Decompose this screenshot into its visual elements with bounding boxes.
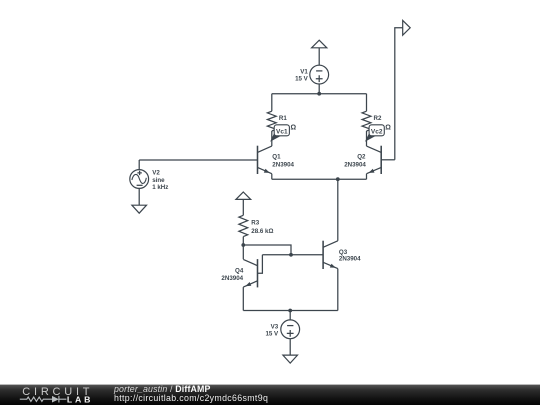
svg-text:V3: V3	[271, 323, 279, 330]
svg-text:2N3904: 2N3904	[339, 256, 361, 263]
svg-text:V2: V2	[152, 169, 160, 176]
svg-text:Q2: Q2	[357, 154, 366, 161]
svg-text:R2: R2	[374, 115, 382, 122]
svg-text:Vc2: Vc2	[371, 129, 383, 136]
svg-text:2N3904: 2N3904	[272, 161, 294, 168]
svg-text:Ω: Ω	[385, 124, 391, 131]
svg-text:Q4: Q4	[235, 268, 244, 275]
svg-text:15 V: 15 V	[295, 75, 309, 82]
svg-text:Ω: Ω	[291, 124, 297, 131]
svg-text:LAB: LAB	[67, 395, 93, 405]
svg-text:R1: R1	[279, 115, 287, 122]
svg-text:28.6 kΩ: 28.6 kΩ	[251, 228, 273, 235]
svg-text:2N3904: 2N3904	[344, 161, 366, 168]
svg-text:15 V: 15 V	[265, 331, 279, 338]
svg-text:R3: R3	[251, 219, 259, 226]
svg-text:1 kHz: 1 kHz	[152, 184, 168, 191]
svg-text:2N3904: 2N3904	[221, 275, 243, 282]
svg-text:http://circuitlab.com/c2ymdc66: http://circuitlab.com/c2ymdc66smt9q	[114, 393, 268, 403]
svg-text:Q1: Q1	[272, 154, 281, 161]
svg-text:Vc1: Vc1	[276, 129, 288, 136]
